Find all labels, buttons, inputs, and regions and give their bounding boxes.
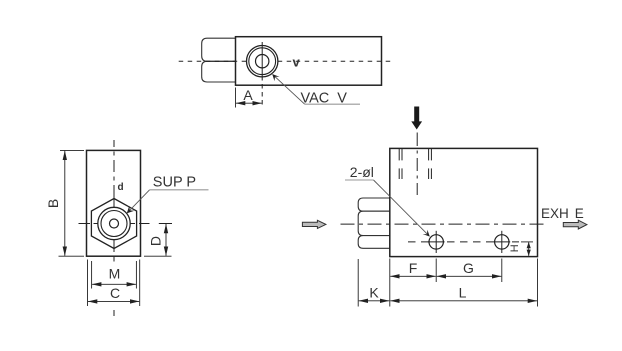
hexagon crosshair [94, 199, 136, 249]
dimension H arrowhead down [527, 250, 531, 256]
svg-text:A: A [243, 87, 253, 103]
dimension B line [64, 151, 66, 256]
dimension H line [528, 242, 530, 256]
svg-text:EXH: EXH [541, 206, 569, 221]
svg-text:L: L [459, 285, 467, 301]
dimension B extension top [60, 149, 84, 151]
dimension H arrowhead up [527, 242, 531, 248]
vertical centerline below arrow [416, 133, 418, 196]
dimension D line [165, 224, 167, 256]
svg-text:d: d [118, 182, 124, 193]
horizontal centerline [79, 223, 173, 225]
dimension D extension bottom [144, 255, 172, 257]
fitting (hex nipple, side view, 3 facets) [358, 198, 390, 248]
leader VAC underline [305, 103, 360, 105]
svg-text:2-øl: 2-øl [350, 164, 374, 180]
H extension line [521, 241, 533, 243]
hole 2 crosshair [501, 231, 503, 253]
svg-text:M: M [109, 266, 121, 282]
dimension K line [359, 300, 390, 302]
vertical centerline [113, 140, 115, 316]
leader SUP underline [150, 189, 209, 191]
dimension G line [437, 275, 502, 277]
dimension A line [236, 102, 262, 104]
centerline (horizontal, top view) [179, 60, 393, 62]
svg-text:SUP P: SUP P [153, 175, 196, 191]
dimension D extension (centerline prolongation) [159, 223, 172, 225]
port SUP circle inner [110, 219, 119, 228]
threaded port dashed lines (left pair) [399, 149, 402, 179]
dimension M extension lines [92, 261, 137, 289]
dimension K/L extension lines [358, 259, 537, 307]
threaded port dashed lines (right pair) [429, 149, 432, 179]
leader VAC arrowhead [272, 74, 279, 81]
leader VAC (diagonal) [273, 75, 305, 104]
svg-text:v: v [293, 55, 301, 70]
port VAC circle middle [249, 48, 276, 75]
horizontal centerline (side view) [341, 223, 549, 225]
svg-text:G: G [463, 260, 474, 276]
leader SUP arrowhead [127, 206, 135, 214]
leader SUP (diagonal) [128, 190, 150, 213]
vertical crosshair of port [261, 42, 263, 107]
body rect (side view) [390, 148, 538, 256]
svg-text:VAC V: VAC V [301, 91, 348, 107]
exhaust flow arrow (grey) [563, 220, 587, 229]
body rect (front view) [87, 150, 141, 256]
leader 2-ol (diagonal) [374, 180, 430, 236]
dimension L line [390, 300, 537, 302]
dimension B extension bottom [59, 255, 85, 257]
leader 2-ol underline [345, 179, 374, 181]
dashed hole axis line [408, 241, 519, 243]
svg-text:E: E [575, 206, 584, 221]
dimension C line [88, 300, 139, 302]
svg-text:D: D [148, 236, 164, 246]
svg-text:B: B [45, 199, 61, 208]
leader 2-ol arrowhead [423, 230, 430, 237]
svg-text:C: C [110, 285, 120, 301]
fitting (hex nipple, side view, 2 facets) [202, 38, 236, 82]
hole circle 2 [495, 235, 509, 249]
dimension C extension lines [88, 260, 140, 307]
svg-text:K: K [369, 285, 379, 301]
port VAC circle inner [256, 55, 269, 68]
svg-text:H: H [509, 244, 521, 252]
body rect (top view) [236, 37, 382, 85]
port SUP circle outer [98, 207, 130, 239]
dimension F/G extension lines [436, 259, 502, 283]
hole 1 crosshair [435, 231, 437, 253]
inlet flow arrow (grey) [302, 220, 326, 228]
flow arrow down (black) [411, 107, 422, 130]
port SUP circle middle [101, 211, 127, 237]
svg-text:F: F [409, 260, 418, 276]
dimension A extension line [235, 88, 237, 108]
dimension M line [92, 283, 136, 285]
hex nut [91, 199, 136, 249]
dimension F line [390, 275, 435, 277]
port VAC circle outer [247, 46, 278, 77]
hole circle 1 [429, 235, 443, 249]
